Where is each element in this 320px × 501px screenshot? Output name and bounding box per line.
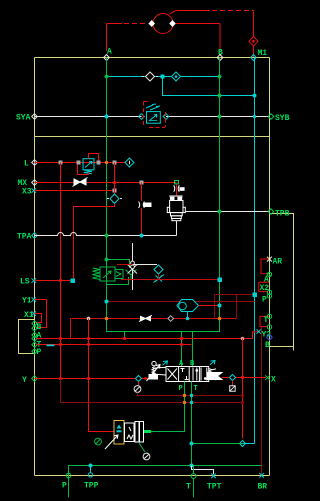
wire: green drop to valve port A xyxy=(181,332,183,367)
plugged port under X diamond xyxy=(232,381,234,386)
wire LS to B-rail (red) xyxy=(121,274,220,280)
orifice diamond (cyan) xyxy=(154,265,163,274)
wire red stub to pilot cross xyxy=(117,264,133,266)
svg-text:TPB: TPB xyxy=(275,210,290,219)
left pilot cap with spring xyxy=(147,361,167,381)
port TPT cross xyxy=(211,474,216,479)
wire bus-to-X drop (red) xyxy=(242,339,244,439)
X1 loop (red) xyxy=(35,314,42,323)
compensator pilot (white) xyxy=(132,243,134,290)
node dot xyxy=(253,94,257,98)
node diamond on tie line xyxy=(168,316,174,322)
X2 loop (red box) xyxy=(259,282,269,291)
node dot xyxy=(253,115,256,118)
port SYA diamond xyxy=(32,114,38,120)
port Y1 cross xyxy=(32,297,37,302)
cartridge relief valve body xyxy=(167,196,185,221)
solenoid arrows above valve xyxy=(146,104,160,110)
wire drop to lower red line xyxy=(137,393,139,396)
svg-text:TPA: TPA xyxy=(17,233,32,242)
wire P drop (green) xyxy=(151,382,185,432)
orifice diamond (dotted) xyxy=(172,72,181,81)
drain circle with slash xyxy=(143,453,150,460)
svg-text:P: P xyxy=(262,296,267,305)
port circle A xyxy=(267,272,271,276)
white cross arrows xyxy=(128,265,138,274)
svg-text:Y: Y xyxy=(22,376,27,385)
svg-text:T: T xyxy=(264,316,269,325)
node dot xyxy=(218,304,222,308)
wire MX into cartridge valve xyxy=(176,184,178,196)
wire TPT jog (white) xyxy=(192,466,214,475)
LS tie line (dark red) with drops xyxy=(215,295,254,319)
wire bus1 (red) xyxy=(37,332,259,339)
wire: drop from L x=60.5 xyxy=(60,163,62,379)
variable orifice bowtie on tie line xyxy=(139,315,152,321)
junction square xyxy=(113,189,117,193)
junction dot L x A-rail xyxy=(105,161,108,164)
svg-text:P: P xyxy=(179,385,183,393)
svg-text:AR: AR xyxy=(273,258,283,267)
svg-text:LS: LS xyxy=(20,278,30,287)
end tick (green box) xyxy=(175,181,179,184)
node diamond cyan on tank line xyxy=(240,441,246,447)
node dot xyxy=(218,210,222,214)
junction dot xyxy=(59,279,62,282)
wire: drop from L x=114.8 through orifice xyxy=(74,163,115,281)
node dots xyxy=(89,464,93,468)
wire: drop from MX x=141.4 xyxy=(141,183,143,236)
terminator square on cyan rail xyxy=(253,293,258,298)
node B diamond on frame xyxy=(217,55,223,61)
svg-text:SYA: SYA xyxy=(16,114,31,123)
wire drop x=88 (red) xyxy=(89,319,115,432)
svg-text:SYB: SYB xyxy=(275,114,290,123)
svg-text:TPT: TPT xyxy=(207,483,222,492)
wire white to orifice xyxy=(133,264,158,266)
node dot xyxy=(218,75,222,79)
red loop around pilot valve xyxy=(89,154,99,161)
port T circle + drop xyxy=(191,474,196,479)
wire TPB (white) from valve to frame xyxy=(186,211,270,213)
cyan plug dash under bus2 xyxy=(47,345,55,347)
port P circle xyxy=(66,473,71,478)
check valve M1 (red diamond) xyxy=(249,37,258,47)
node dot xyxy=(105,234,109,238)
right solenoid flag box xyxy=(207,373,222,380)
wire output (green) xyxy=(151,431,185,433)
wire A to motor left port (red, part dashed) xyxy=(107,23,123,25)
variable orifice (white bowtie) on MX xyxy=(73,178,88,187)
SYA valve connection diamonds xyxy=(139,114,145,120)
node A diamond on frame xyxy=(104,55,110,61)
double orifice rings xyxy=(131,261,135,265)
node diamond cyan xyxy=(230,375,236,381)
wire TPP drop (cyan) xyxy=(90,466,92,474)
motor port diamond right xyxy=(169,20,176,27)
plugged port under diamond xyxy=(138,382,140,386)
gauge circle (green) xyxy=(95,438,102,445)
node dot xyxy=(140,234,144,238)
node dot xyxy=(105,115,109,119)
T loop (red) xyxy=(260,316,269,326)
svg-text:Y1: Y1 xyxy=(22,297,32,306)
main directional valve xyxy=(166,367,216,382)
wire T drop (green) xyxy=(191,382,193,466)
check valve seat (green) xyxy=(126,270,137,280)
terminator square xyxy=(71,279,76,284)
wire cyan drop and run to M1 rail xyxy=(163,77,255,96)
wire valve bottom drop (white) xyxy=(176,221,178,236)
dashed red enclosure xyxy=(144,102,166,128)
wire X pilot (red) xyxy=(222,377,266,379)
port Y diamond xyxy=(32,376,38,382)
wire tank tie (green->cyan) xyxy=(192,443,243,445)
valve block outline (yellow frame) xyxy=(35,58,294,476)
port L diamond xyxy=(32,160,38,166)
pressure compensator valve (green) xyxy=(93,260,129,285)
svg-text:B: B xyxy=(265,341,270,350)
svg-text:A: A xyxy=(37,332,42,341)
section 1: crossed arrows xyxy=(168,369,178,380)
orifice with plug on MX drop xyxy=(174,185,180,191)
port X cross xyxy=(265,375,270,380)
junction dots on buses xyxy=(59,337,62,340)
junction dots xyxy=(59,377,62,380)
port MX diamond xyxy=(32,180,38,186)
node dot xyxy=(218,115,222,119)
valve yellow body xyxy=(114,421,124,445)
lower red line 2 (dark) xyxy=(61,379,243,403)
junction square xyxy=(140,181,144,185)
left solenoid block xyxy=(149,374,159,380)
port circle T2 xyxy=(267,325,271,329)
wire Y pilot (red) xyxy=(35,378,149,380)
wire X3 (red) xyxy=(35,190,115,192)
marker square on B rail xyxy=(218,278,223,283)
solenoid valve SY (cyan box) xyxy=(147,112,161,124)
svg-text:T: T xyxy=(186,483,191,492)
lower red line 1 (dark) xyxy=(137,395,243,397)
wire bus2 (red) xyxy=(37,344,192,346)
wire A riser xyxy=(106,24,108,52)
wire hexagon to B rail (red) xyxy=(199,305,220,307)
node M1 diamond on frame xyxy=(251,55,257,61)
node diamond cyan xyxy=(136,376,142,382)
junction squares on L xyxy=(59,161,63,165)
wire cyan A-B crossover xyxy=(107,76,220,78)
port circle T xyxy=(267,314,271,318)
port Y2 cross xyxy=(257,329,262,334)
svg-text:TPP: TPP xyxy=(84,482,99,491)
junction dot xyxy=(113,181,116,184)
wire BR rail (dark red) xyxy=(261,327,263,475)
port diamonds column xyxy=(32,321,37,354)
wire LS (red) xyxy=(35,280,73,282)
hydraulic motor M xyxy=(153,14,173,34)
pilot relief valve (cyan box) xyxy=(83,159,94,170)
wire TPA (white with hops) xyxy=(35,233,177,236)
shuttle hexagon (cyan) xyxy=(177,300,199,312)
svg-text:X: X xyxy=(271,376,276,385)
port AR cross xyxy=(267,257,272,262)
port circle (X2 lower) xyxy=(267,290,271,294)
port circle P xyxy=(267,294,271,298)
arrowhead dots in sections xyxy=(195,369,198,372)
junction dot xyxy=(241,376,244,379)
node dot xyxy=(190,442,194,446)
wire long tie (dark red) behind hexagon xyxy=(107,301,255,303)
port TPP circle xyxy=(88,473,92,477)
proportional arrows on valve (cyan) xyxy=(163,361,168,365)
svg-text:T: T xyxy=(194,385,198,393)
port TPB diamond xyxy=(268,209,274,215)
port TPA diamond xyxy=(32,233,38,239)
orifice diamond on drop xyxy=(110,194,119,203)
throttle cross below (cyan) xyxy=(154,275,165,283)
junction dots xyxy=(183,394,186,397)
wire: A rail (green vertical) xyxy=(107,58,220,332)
svg-text:X3: X3 xyxy=(22,188,32,197)
wire motor top to M1 (red, dashed right part) xyxy=(170,11,210,15)
section 4: straight bars xyxy=(201,368,207,381)
Y1 loop (red) xyxy=(35,300,47,328)
wire motor right port to B riser xyxy=(176,23,220,25)
node dots on tie xyxy=(87,317,91,321)
compensator feed (green) xyxy=(107,260,130,269)
node dot xyxy=(218,94,222,98)
right spring xyxy=(209,369,212,380)
node dot xyxy=(105,300,109,304)
motor port diamond left xyxy=(148,20,155,27)
node dot xyxy=(105,75,109,79)
output arrow (green thick) xyxy=(144,430,151,433)
port X1 cross xyxy=(32,311,37,316)
wire SYA-SYB (white) xyxy=(35,116,270,118)
junction square xyxy=(161,75,165,79)
wire: green drop to bus1 xyxy=(124,332,126,339)
wire L (red) xyxy=(35,162,126,164)
svg-text:M1: M1 xyxy=(258,49,268,58)
port X3 cross xyxy=(32,188,37,193)
drain diagonal (green) xyxy=(139,443,145,452)
port BR cross xyxy=(259,473,264,478)
orifice diamond on L xyxy=(125,158,134,167)
orifice with plug on drop xyxy=(139,202,145,208)
port LS cross xyxy=(32,278,37,283)
cyan arrow and seat xyxy=(117,425,122,429)
proportional diagonal arrow xyxy=(105,435,118,449)
svg-text:L: L xyxy=(24,160,29,169)
AR loop (red) xyxy=(261,259,269,274)
svg-text:P: P xyxy=(37,348,42,357)
wire bottom green manifold xyxy=(69,466,262,498)
svg-text:P: P xyxy=(62,482,67,491)
white section xyxy=(125,422,144,443)
section 2: center T blocks xyxy=(181,369,189,380)
orifice diamond (open) xyxy=(146,72,155,81)
spring below valve (cyan) xyxy=(84,170,92,174)
wire pilot tie (red) xyxy=(71,319,237,339)
port SYB diamond xyxy=(268,114,274,120)
wire hexagon drop (cyan) xyxy=(187,312,189,319)
wire: green drop to valve port B xyxy=(192,332,194,367)
wire: M1 cyan rail xyxy=(254,58,256,444)
port sub-box B/A/T/P (yellow) xyxy=(19,320,35,354)
node diamond (blue) on frame xyxy=(267,334,273,340)
section 3: straight bars xyxy=(193,368,197,381)
wire MX (red) xyxy=(35,182,177,184)
svg-text:BR: BR xyxy=(258,483,268,492)
